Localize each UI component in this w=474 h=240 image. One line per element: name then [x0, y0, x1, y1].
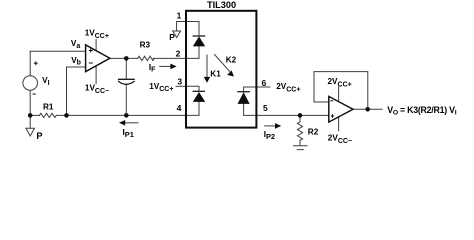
- svg-text:K1: K1: [210, 69, 221, 78]
- svg-text:P: P: [36, 131, 42, 141]
- svg-text:2VCC+: 2VCC+: [276, 82, 300, 93]
- svg-text:2: 2: [176, 48, 181, 58]
- svg-text:P: P: [169, 33, 175, 42]
- svg-text:R2: R2: [308, 128, 319, 137]
- svg-text:K2: K2: [226, 56, 237, 65]
- svg-text:6: 6: [262, 78, 267, 88]
- svg-text:1VCC+: 1VCC+: [85, 29, 109, 40]
- svg-text:R3: R3: [140, 41, 151, 50]
- svg-text:5: 5: [263, 103, 268, 113]
- svg-text:3: 3: [177, 77, 182, 87]
- svg-text:1: 1: [177, 11, 182, 21]
- svg-text:4: 4: [177, 103, 182, 113]
- svg-text:Va: Va: [71, 39, 80, 50]
- svg-text:R1: R1: [43, 102, 54, 111]
- svg-text:IP1: IP1: [123, 128, 134, 139]
- svg-text:Vb: Vb: [71, 56, 81, 67]
- svg-text:IF: IF: [149, 63, 156, 74]
- svg-text:VI: VI: [42, 76, 49, 87]
- svg-text:VO = K3(R2/R1) VI: VO = K3(R2/R1) VI: [387, 105, 457, 117]
- svg-text:1VCC−: 1VCC−: [85, 83, 109, 94]
- svg-text:2VCC−: 2VCC−: [328, 134, 352, 145]
- svg-text:1VCC+: 1VCC+: [149, 82, 173, 93]
- svg-text:2VCC+: 2VCC+: [328, 77, 352, 88]
- svg-text:TIL300: TIL300: [207, 0, 236, 10]
- svg-text:IP2: IP2: [264, 130, 275, 141]
